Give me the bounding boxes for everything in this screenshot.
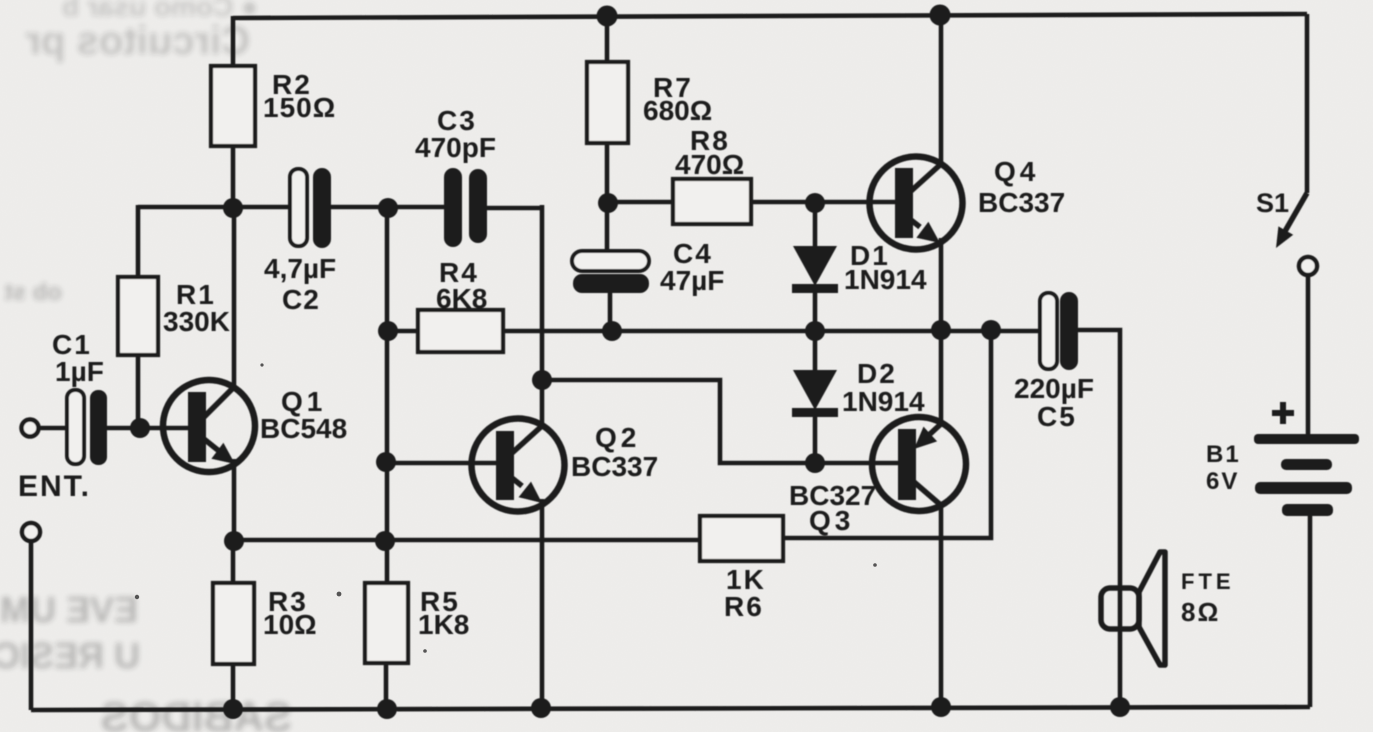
node output bus R6 xyxy=(981,320,1001,340)
wire Q3 base xyxy=(815,461,900,466)
node C1-R1-Q1 base xyxy=(130,418,150,438)
wire R2 top drop xyxy=(231,16,236,66)
wire R2 bottom to node xyxy=(231,146,236,209)
label Q1 BC548 xyxy=(260,386,347,444)
wire R8 left xyxy=(608,200,673,205)
node C2-R4-Q2 branch xyxy=(378,198,398,218)
capacitor C4 xyxy=(572,251,649,293)
node Q1 emitter xyxy=(224,531,244,551)
wire bus left R4 xyxy=(388,329,419,334)
label Q2 BC337 xyxy=(571,422,658,482)
svg-text:Q3: Q3 xyxy=(809,505,854,536)
node output bus Q4 xyxy=(931,320,951,340)
label C5 220uF xyxy=(1014,373,1094,432)
svg-text:6K8: 6K8 xyxy=(436,283,487,314)
svg-text:EVE UM C: EVE UM C xyxy=(0,589,138,630)
label C2 4.7uF xyxy=(264,253,336,315)
label R7 680ohm xyxy=(643,72,712,126)
wire collector link to D2 xyxy=(543,380,816,463)
speaker FTE xyxy=(1101,552,1165,665)
svg-text:220µF: 220µF xyxy=(1014,373,1094,404)
label S1 xyxy=(1256,188,1289,218)
node R5 top tap xyxy=(375,531,395,551)
svg-text:47µF: 47µF xyxy=(660,265,724,296)
capacitor C2 xyxy=(290,168,331,248)
svg-text:150Ω: 150Ω xyxy=(263,92,336,123)
node Q2 base tap xyxy=(376,452,396,472)
label C1 1uF xyxy=(52,329,104,387)
switch S1 xyxy=(1276,14,1317,435)
svg-text:C5: C5 xyxy=(1037,401,1077,432)
svg-text:D2: D2 xyxy=(857,358,897,389)
label R4 6K8 xyxy=(436,257,487,314)
resistor R8 xyxy=(673,179,751,224)
resistor R2 xyxy=(211,66,255,146)
node D2-Q3 base xyxy=(805,453,825,473)
capacitor C5 xyxy=(1040,292,1078,370)
resistor R6 xyxy=(700,516,783,561)
svg-text:ENT.: ENT. xyxy=(18,470,91,503)
wire R6 right to output xyxy=(783,330,991,538)
label D2 1N914 xyxy=(842,358,925,417)
label R5 1K8 xyxy=(418,586,469,640)
node Q2 collector xyxy=(532,370,552,390)
svg-text:SABIDOS: SABIDOS xyxy=(101,693,292,732)
node top rail R7 xyxy=(597,6,618,27)
resistor R4 xyxy=(418,310,503,352)
svg-text:8Ω: 8Ω xyxy=(1181,597,1220,627)
node R2-C2-Q1 collector xyxy=(223,198,243,218)
transistor Q4 xyxy=(870,157,963,250)
resistor R5 xyxy=(365,583,408,663)
wire base row y207 xyxy=(138,205,291,210)
svg-text:BC337: BC337 xyxy=(978,187,1065,218)
node R4 left tap xyxy=(378,321,398,341)
node R8 left tap xyxy=(598,193,618,213)
wire C5 right to speaker xyxy=(1077,330,1120,708)
wire Q4 collector riser xyxy=(939,14,944,166)
transistor Q2 xyxy=(472,419,565,512)
svg-text:6V: 6V xyxy=(1206,468,1239,495)
node top rail Q4 xyxy=(930,5,951,26)
svg-text:680Ω: 680Ω xyxy=(643,95,712,126)
wire Q2 base xyxy=(386,461,498,466)
label Q4 BC337 xyxy=(978,156,1065,218)
label FTE 8ohm xyxy=(1181,569,1235,627)
svg-text:470pF: 470pF xyxy=(415,132,496,163)
svg-text:4,7µF: 4,7µF xyxy=(264,253,336,284)
label R3 10ohm xyxy=(263,586,317,640)
svg-text:FTE: FTE xyxy=(1181,569,1235,594)
wire Q1 collector riser xyxy=(232,209,237,385)
label Q3 BC327 xyxy=(789,480,876,536)
node rail speaker xyxy=(1110,697,1130,717)
node bus D tap xyxy=(805,321,825,341)
resistor R7 xyxy=(587,62,628,143)
battery B1 xyxy=(1254,434,1359,516)
svg-text:1N914: 1N914 xyxy=(844,264,927,295)
label R1 330K xyxy=(163,279,230,337)
wire R7 top xyxy=(605,13,610,62)
wire R7 bottom to C4 xyxy=(605,143,610,252)
wire bottom ground rail xyxy=(31,542,1310,710)
label R2 150ohm xyxy=(263,69,336,123)
svg-text:Q4: Q4 xyxy=(994,156,1039,187)
svg-text:C2: C2 xyxy=(282,284,320,315)
wire Q4 base xyxy=(815,200,897,205)
wire Q4 emitter drop xyxy=(939,238,944,330)
label R6 1K xyxy=(724,564,766,622)
wire C3 column upper xyxy=(540,205,545,426)
wire Q3 emitter riser xyxy=(939,330,944,424)
wire C4 bottom xyxy=(608,293,613,331)
node rail Q2 emitter xyxy=(531,698,551,718)
diode D1 xyxy=(792,203,838,331)
wire Q2 emitter drop xyxy=(540,499,545,709)
wire R1 riser xyxy=(136,205,141,277)
svg-text:1N914: 1N914 xyxy=(842,386,925,417)
svg-text:U RESICS: U RESICS xyxy=(0,635,140,676)
wire input to C1 xyxy=(38,426,67,431)
svg-text:470Ω: 470Ω xyxy=(675,149,744,180)
capacitor C3 xyxy=(444,168,487,247)
wire C3 to corner xyxy=(487,206,542,211)
wire top supply rail xyxy=(233,14,1307,18)
svg-text:B1: B1 xyxy=(1206,441,1241,468)
svg-text:10Ω: 10Ω xyxy=(263,609,317,640)
svg-text:BC548: BC548 xyxy=(260,413,347,444)
svg-text:BC337: BC337 xyxy=(571,451,658,482)
label ENT xyxy=(18,470,91,503)
diode D2 xyxy=(792,331,838,463)
transistor Q3 xyxy=(872,417,966,511)
wire bus y331 xyxy=(503,329,1041,334)
node rail Q3 collector xyxy=(931,697,951,717)
label C4 47uF xyxy=(660,238,724,296)
wire R3 bottom xyxy=(231,665,236,710)
wire branch column x386 xyxy=(385,207,390,581)
wire C1 to Q1 base xyxy=(107,426,190,431)
svg-text:1µF: 1µF xyxy=(55,356,104,387)
label D1 1N914 xyxy=(844,240,927,295)
wire R5 bottom xyxy=(384,664,389,710)
wire Q1 emitter drop xyxy=(232,459,237,541)
transistor Q1 xyxy=(163,380,255,472)
svg-text:Q2: Q2 xyxy=(595,422,640,453)
wire R1 bottom xyxy=(136,355,141,428)
wire emitter to R3 xyxy=(231,541,236,583)
node C4 bottom tap xyxy=(602,321,622,341)
node rail R5 xyxy=(377,699,397,719)
label B1 6V xyxy=(1206,441,1241,495)
svg-text:330K: 330K xyxy=(163,306,230,337)
label C3 470pF xyxy=(415,105,496,163)
svg-text:ob st: ob st xyxy=(5,279,62,306)
svg-text:R6: R6 xyxy=(724,591,764,622)
node R8-D1-Q4 base xyxy=(805,193,825,213)
label R8 470ohm xyxy=(675,125,744,180)
resistor R1 xyxy=(118,277,158,355)
svg-text:Circuitos pr: Circuitos pr xyxy=(26,19,250,63)
svg-text:S1: S1 xyxy=(1256,188,1289,218)
wire R8 right xyxy=(751,200,816,205)
wire battery bottom xyxy=(1308,516,1313,707)
wire C2 to C3 xyxy=(331,205,444,210)
resistor R3 xyxy=(213,583,254,664)
label battery plus xyxy=(1272,402,1294,424)
wire Q3 collector drop xyxy=(939,504,944,708)
capacitor C1 xyxy=(67,390,107,465)
terminal input ground xyxy=(22,523,40,541)
node rail R3 xyxy=(223,699,243,719)
wire feedback row y540 xyxy=(234,538,700,543)
svg-text:1K8: 1K8 xyxy=(418,609,469,640)
terminal input ENT xyxy=(22,420,39,437)
